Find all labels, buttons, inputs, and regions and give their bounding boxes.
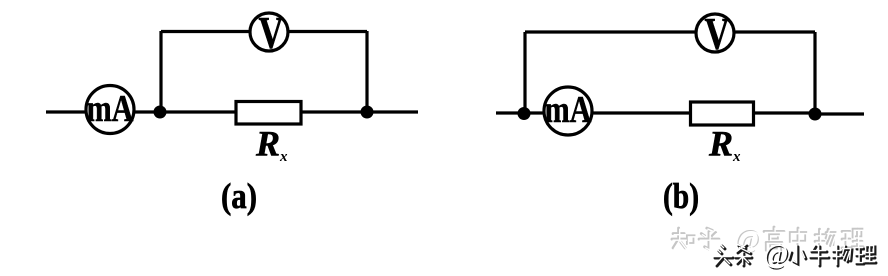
- label R_x circuit (a): [255, 124, 288, 166]
- voltmeter V circuit (a): [250, 8, 288, 58]
- junction node right circuit (b): [809, 108, 822, 121]
- wire left lead circuit (a): [46, 110, 160, 113]
- ammeter mA circuit (a): [86, 86, 134, 134]
- svg-text:@: @: [764, 239, 789, 269]
- wire vertical right branch circuit (a): [365, 31, 368, 112]
- wire main between nodes circuit (b): [524, 111, 815, 114]
- svg-text:x: x: [279, 149, 288, 165]
- resistor R_x box circuit (b): [691, 102, 754, 125]
- voltmeter V circuit (b): [696, 9, 734, 59]
- wire vertical left branch circuit (b): [523, 32, 526, 113]
- wire right lead circuit (b): [815, 112, 864, 115]
- wire left lead circuit (b): [496, 111, 524, 114]
- wire top branch circuit (b): [525, 30, 815, 33]
- watermark toutiao emboss highlight: [714, 239, 875, 269]
- label R_x circuit (b): [708, 124, 741, 166]
- wire vertical left branch circuit (a): [159, 31, 162, 112]
- svg-text:V: V: [705, 9, 730, 59]
- svg-text:R: R: [255, 124, 280, 164]
- svg-text:x: x: [732, 149, 741, 165]
- svg-text:V: V: [259, 8, 284, 58]
- junction node left circuit (b): [518, 107, 531, 120]
- svg-text:mA: mA: [545, 89, 592, 131]
- wire main between nodes circuit (a): [160, 110, 367, 113]
- watermark zhihu gray text: [672, 224, 863, 254]
- wire top branch circuit (a): [161, 30, 367, 33]
- watermark zhihu emboss highlight: [673, 225, 864, 255]
- svg-text:(b): (b): [663, 176, 699, 216]
- resistor R_x box circuit (a): [236, 102, 301, 125]
- svg-text:(a): (a): [221, 176, 257, 216]
- junction node left circuit (a): [154, 106, 167, 119]
- svg-text:R: R: [708, 124, 733, 164]
- svg-text:mA: mA: [87, 88, 134, 130]
- wire right lead circuit (a): [367, 110, 418, 113]
- junction node right circuit (a): [361, 106, 374, 119]
- ammeter mA circuit (b): [544, 87, 592, 135]
- watermark toutiao black text: [715, 240, 876, 270]
- wire vertical right branch circuit (b): [813, 32, 816, 114]
